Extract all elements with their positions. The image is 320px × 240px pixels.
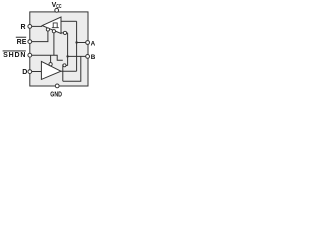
driver triangle U2 <box>41 61 61 79</box>
wire driver enable drop <box>50 55 52 62</box>
svg-text:RE: RE <box>17 39 27 46</box>
IC body box <box>30 12 88 86</box>
wire A pin stub <box>77 42 87 44</box>
wire R output <box>32 25 43 27</box>
svg-text:SHDN: SHDN <box>3 52 26 59</box>
hysteresis symbol <box>52 23 59 28</box>
background <box>0 0 100 100</box>
driver Z tap vertical <box>62 64 64 81</box>
svg-text:A: A <box>91 40 96 47</box>
wire receiver enable 2 drop <box>53 33 55 55</box>
receiver triangle U1 <box>42 17 61 34</box>
pin A terminal <box>86 41 90 45</box>
receiver inverting input bubble <box>63 31 66 34</box>
svg-text:D: D <box>22 69 27 76</box>
wire receiver input A: base to right bus <box>61 20 77 22</box>
pin RE terminal <box>28 40 32 44</box>
wire bottom loop to B <box>63 56 81 81</box>
svg-text:R: R <box>21 24 26 31</box>
svg-text:GND: GND <box>50 92 62 99</box>
pin VCC terminal <box>55 8 59 12</box>
pin R terminal <box>28 25 32 29</box>
pin GND terminal <box>55 84 59 88</box>
wire RE enable: bubble down then left to pin <box>32 31 48 42</box>
driver enable bubble <box>49 63 52 66</box>
wire D input <box>32 71 42 73</box>
pin SHDN terminal <box>28 53 32 57</box>
node A junction dot <box>75 41 77 43</box>
pin D terminal <box>28 70 32 74</box>
receiver inverting input stub <box>61 33 68 57</box>
receiver enable bubble 1 <box>46 28 49 31</box>
driver Z bubble <box>63 64 66 67</box>
wire SHDN line <box>32 55 63 60</box>
wire driver output Y <box>61 70 77 72</box>
wire bus A vertical <box>76 21 78 71</box>
svg-text:VCC: VCC <box>52 2 62 10</box>
receiver enable bubble 2 <box>52 30 55 33</box>
node B junction dot <box>66 55 68 57</box>
wire Z bubble stub to B bus <box>66 56 68 65</box>
pin B terminal <box>86 55 90 59</box>
wire B line <box>68 55 87 57</box>
svg-text:B: B <box>91 54 96 61</box>
